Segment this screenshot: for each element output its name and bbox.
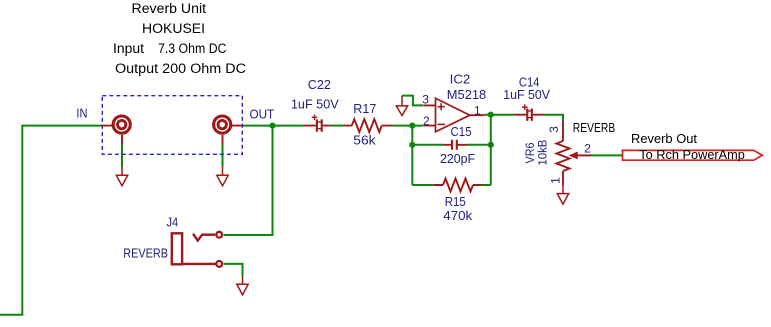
svg-text:VR6: VR6	[525, 143, 537, 164]
svg-text:IC2: IC2	[450, 72, 471, 87]
svg-text:2: 2	[584, 141, 591, 155]
svg-text:C15: C15	[451, 124, 472, 139]
svg-text:470k: 470k	[443, 208, 472, 223]
svg-text:1: 1	[474, 104, 481, 118]
svg-text:3: 3	[547, 126, 561, 133]
svg-text:Reverb Unit: Reverb Unit	[132, 1, 207, 16]
svg-text:REVERB: REVERB	[573, 120, 615, 135]
svg-text:IN: IN	[76, 106, 87, 121]
svg-text:10kB: 10kB	[538, 139, 550, 165]
svg-text:56k: 56k	[353, 133, 376, 148]
svg-text:1: 1	[549, 177, 563, 184]
svg-text:Input: Input	[113, 41, 144, 56]
svg-text:M5218: M5218	[447, 87, 486, 102]
svg-text:1uF 50V: 1uF 50V	[291, 97, 339, 112]
svg-text:1uF 50V: 1uF 50V	[503, 87, 550, 102]
svg-text:C22: C22	[308, 77, 331, 92]
svg-text:REVERB: REVERB	[123, 246, 168, 261]
svg-text:R15: R15	[445, 194, 466, 209]
svg-text:Reverb Out: Reverb Out	[631, 132, 698, 146]
svg-text:3: 3	[422, 93, 429, 107]
svg-text:OUT: OUT	[250, 107, 275, 122]
svg-text:HOKUSEI: HOKUSEI	[142, 21, 205, 36]
svg-text:2: 2	[423, 114, 430, 128]
svg-text:R17: R17	[353, 101, 376, 116]
svg-text:7.3 Ohm DC: 7.3 Ohm DC	[158, 41, 227, 56]
svg-text:Output 200 Ohm DC: Output 200 Ohm DC	[115, 61, 246, 76]
svg-text:J4: J4	[167, 215, 179, 230]
svg-text:To Rch PowerAmp: To Rch PowerAmp	[639, 147, 745, 162]
svg-text:220pF: 220pF	[440, 151, 475, 166]
